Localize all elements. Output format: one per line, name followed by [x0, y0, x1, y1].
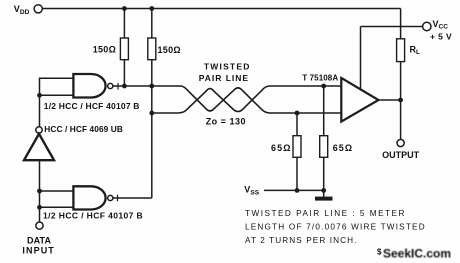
bubble U3 output [108, 195, 113, 200]
svg-text:HCC / HCF 4069 UB: HCC / HCF 4069 UB [44, 124, 123, 134]
svg-text:Zo = 130: Zo = 130 [206, 116, 246, 126]
svg-text:+ 5 V: + 5 V [430, 32, 452, 42]
junction lineB riser [149, 111, 154, 116]
junction R2 line crossing line A [149, 84, 154, 89]
svg-text:PAIR LINE: PAIR LINE [199, 73, 249, 83]
junction output node [398, 98, 403, 103]
wire U3 input upper [40, 190, 74, 192]
resistor RL [397, 39, 405, 62]
junction rail-R2 [149, 6, 154, 11]
wire VSS bus [264, 189, 324, 191]
svg-text:OUTPUT: OUTPUT [382, 150, 420, 160]
junction U1 inputs tied [37, 93, 42, 98]
svg-text:65Ω: 65Ω [271, 143, 292, 153]
wire R1 top lead [123, 9, 125, 39]
bubble U1 output [108, 83, 113, 88]
svg-text:1/2 HCC / HCF 40107 B: 1/2 HCC / HCF 40107 B [44, 101, 140, 111]
svg-text:VSS: VSS [244, 185, 259, 197]
pin tick U3 output [117, 195, 119, 202]
wire VCC to U4 power pin [360, 27, 362, 90]
node VCC terminal [423, 22, 431, 30]
wire R4 top lead [323, 86, 325, 136]
junction data-U3 upper [37, 189, 42, 194]
svg-text:T 75108A: T 75108A [302, 74, 338, 83]
svg-text:$: $ [377, 248, 382, 257]
svg-text:VDD: VDD [14, 4, 30, 16]
wire U1 output to line A [113, 85, 180, 87]
svg-text:TWISTED: TWISTED [204, 62, 251, 72]
svg-text:65Ω: 65Ω [333, 143, 354, 153]
junction lineB - R3 [295, 111, 300, 116]
wire R4 bottom lead [323, 157, 325, 197]
svg-text:VCC: VCC [433, 19, 449, 31]
node OUTPUT terminal [397, 139, 404, 146]
node VDD terminal [34, 5, 42, 13]
svg-text:150Ω: 150Ω [158, 45, 181, 55]
resistor 150ohm R1 [120, 38, 128, 60]
NAND gate U3 (bottom, 1/2 HCC/HCF 40107 B) [73, 186, 105, 209]
junction R1-lineA [122, 84, 127, 89]
svg-text:SeekIC.com: SeekIC.com [383, 247, 451, 261]
svg-text:RL: RL [410, 44, 421, 56]
wire R1 bottom lead [123, 60, 125, 86]
NAND gate U1 (top, 1/2 HCC/HCF 40107 B) [73, 74, 105, 98]
pin tick U1 output [117, 83, 119, 90]
wire twisted pair conductor A [180, 86, 341, 113]
svg-text:150Ω: 150Ω [93, 45, 116, 55]
resistor 65ohm R3 [293, 136, 301, 158]
wire VDD rail drop to VCC node [400, 9, 402, 39]
resistor 65ohm R4 [320, 136, 328, 158]
svg-text:DATA: DATA [27, 236, 51, 246]
ground bar [315, 197, 333, 201]
wire twisted pair conductor B [152, 86, 341, 113]
wire VCC feed [361, 26, 423, 28]
wire R3 top lead [296, 113, 298, 136]
svg-text:1/2 HCC / HCF 40107 B: 1/2 HCC / HCF 40107 B [43, 210, 143, 220]
wire R2 bottom lead through line B down to gate U3 output [151, 60, 153, 198]
wire U1 input upper [40, 78, 74, 95]
wire U3 output to line B riser [113, 197, 152, 199]
wire U2 input from data node [39, 160, 41, 222]
svg-text:INPUT: INPUT [22, 246, 55, 256]
bubble U2 output [36, 127, 42, 133]
junction R4-VSS [321, 188, 326, 193]
junction R3-VSS [295, 188, 300, 193]
op-amp U4 line receiver T 75108A [341, 78, 378, 122]
svg-text:AT 2 TURNS PER INCH.: AT 2 TURNS PER INCH. [245, 236, 358, 245]
wire U4 output [379, 99, 401, 101]
junction data-U3 lower [37, 205, 42, 210]
wire inverter input chain vertical [39, 95, 41, 126]
node DATA INPUT terminal [36, 222, 43, 229]
wire U1 input lower [40, 94, 74, 96]
wire U3 input lower [40, 206, 74, 208]
svg-text:TWISTED PAIR LINE : 5 METER: TWISTED PAIR LINE : 5 METER [245, 209, 406, 218]
wire RL bottom lead to output node [400, 62, 402, 140]
svg-text:LENGTH OF 7/0.0076 WIRE TWISTE: LENGTH OF 7/0.0076 WIRE TWISTED [245, 223, 426, 232]
junction rail-R1 [122, 6, 127, 11]
resistor 150ohm R2 [148, 38, 156, 60]
wire R2 top lead [151, 9, 153, 39]
junction lineA - R4 [321, 84, 326, 89]
wire R3 bottom lead [296, 157, 298, 190]
wire VDD top rail [42, 8, 400, 10]
inverter U2 (HCC/HCF 4069 UB) [24, 134, 54, 160]
